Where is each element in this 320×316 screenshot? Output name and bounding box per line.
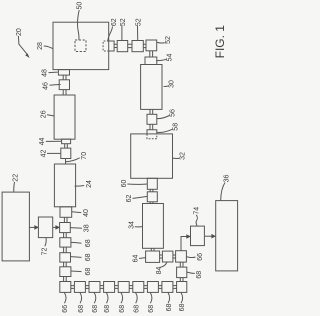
box 68 row7 <box>147 282 158 293</box>
leader 26 <box>47 115 54 116</box>
box 68 row3 <box>89 282 100 293</box>
svg-text:34: 34 <box>129 221 136 229</box>
box 66 row corner <box>60 282 71 293</box>
leader 54 <box>156 59 166 60</box>
svg-text:62: 62 <box>111 18 118 26</box>
text labels (rotated) <box>13 2 231 313</box>
box 72 <box>38 217 52 238</box>
wire row2-row3 <box>85 286 89 289</box>
svg-text:40: 40 <box>83 209 90 217</box>
component 62 on edge of 28 <box>109 41 114 51</box>
leader 48 <box>49 71 58 74</box>
svg-text:28: 28 <box>37 42 44 50</box>
leader 68 right <box>187 272 195 273</box>
wire 56-58 <box>150 124 153 129</box>
svg-text:68: 68 <box>85 253 92 261</box>
wire row5-row6 <box>129 286 133 289</box>
wire 62b-34 <box>150 202 153 204</box>
wire 40-38 <box>64 217 67 222</box>
wire 52a-52b <box>128 44 132 47</box>
box 68 row6 <box>133 282 144 293</box>
leader 52b <box>137 26 139 40</box>
tab 60 <box>147 178 157 189</box>
wire 60-62 <box>150 189 153 192</box>
tab 48 <box>58 70 69 76</box>
leader 36 <box>221 183 225 201</box>
wire 66 to 74 arrow <box>181 237 187 251</box>
box 68 right column <box>177 267 187 278</box>
leader 44 <box>46 140 62 142</box>
svg-text:68: 68 <box>85 239 92 247</box>
leader row label 9 <box>181 293 183 304</box>
box 34 <box>143 204 164 249</box>
leader 84 <box>160 262 167 267</box>
leader 42 <box>47 152 61 154</box>
svg-text:66: 66 <box>62 305 69 313</box>
svg-text:68: 68 <box>104 305 111 313</box>
svg-text:58: 58 <box>172 123 179 131</box>
svg-text:62: 62 <box>126 195 133 203</box>
wire 30-56 <box>150 110 153 115</box>
svg-text:50: 50 <box>77 2 84 10</box>
box 28 <box>53 22 109 69</box>
svg-text:68: 68 <box>148 305 155 313</box>
leader 50 <box>77 10 79 40</box>
box 42 <box>61 148 71 158</box>
box 64 <box>146 251 160 262</box>
wire 68b-68c <box>64 262 67 267</box>
svg-text:68: 68 <box>85 268 92 276</box>
wire 38-68a <box>64 233 67 238</box>
leader row label 2 <box>80 293 82 304</box>
box 68 row4 <box>104 282 115 293</box>
box 26 <box>54 95 75 139</box>
box 68 row2 <box>74 282 85 293</box>
box 68c <box>60 267 71 277</box>
svg-text:72: 72 <box>42 248 49 256</box>
svg-text:42: 42 <box>41 150 48 158</box>
box 68 row8 <box>162 282 173 293</box>
wire 62-52a <box>114 44 117 47</box>
svg-text:44: 44 <box>39 138 46 146</box>
svg-text:48: 48 <box>41 69 48 77</box>
leader 72 <box>45 238 46 247</box>
leader 70 <box>66 158 80 162</box>
leader row label 5 <box>121 293 123 304</box>
svg-text:52: 52 <box>135 18 142 26</box>
leader 28 <box>44 46 53 49</box>
svg-text:30: 30 <box>168 80 175 88</box>
wire 72-38 arrow <box>53 226 56 228</box>
tab 44 <box>62 139 71 144</box>
wire 44-42 <box>65 144 68 148</box>
leader 62 top <box>108 27 113 41</box>
wire 48-46 <box>63 75 66 80</box>
wire 64-84 <box>160 255 163 258</box>
wire row7-row8 <box>158 286 162 289</box>
leader 32 <box>173 157 180 159</box>
box 66 right <box>176 251 187 262</box>
tab 54 <box>145 57 157 65</box>
leader 52c <box>157 41 165 44</box>
wire 68-row <box>180 278 183 282</box>
box 22 <box>2 192 29 261</box>
svg-text:68: 68 <box>78 305 85 313</box>
box 38 <box>60 223 71 233</box>
wire 68c-row <box>64 277 67 282</box>
svg-text:68: 68 <box>119 305 126 313</box>
box 52c <box>146 40 157 51</box>
box 68 row5 <box>118 282 129 293</box>
leader row label 1 <box>64 293 66 304</box>
leader 52a <box>121 26 123 40</box>
wire row8-row9 <box>173 286 177 289</box>
svg-text:68: 68 <box>166 304 173 312</box>
svg-text:54: 54 <box>166 54 173 62</box>
svg-text:70: 70 <box>81 152 88 160</box>
wire row4-row5 <box>115 286 119 289</box>
svg-text:52: 52 <box>120 18 127 26</box>
box 32 <box>131 134 173 178</box>
leader 24 <box>75 185 85 188</box>
svg-text:FIG. 1: FIG. 1 <box>213 25 227 59</box>
wire row3-row4 <box>100 286 104 289</box>
leader row label 7 <box>150 293 152 304</box>
leader row label 6 <box>136 293 138 304</box>
svg-text:46: 46 <box>43 82 50 90</box>
svg-text:38: 38 <box>84 224 91 232</box>
leader row label 4 <box>106 293 108 304</box>
box 46 <box>59 80 69 90</box>
leader 60 <box>127 183 147 185</box>
leader 46 <box>50 84 61 87</box>
box 52a <box>117 41 128 52</box>
svg-text:68: 68 <box>196 271 203 279</box>
box 74 <box>191 226 205 246</box>
leader 66 right <box>187 256 196 259</box>
svg-text:36: 36 <box>224 175 231 183</box>
box 62b <box>147 192 157 202</box>
dashed box 50 <box>75 40 86 52</box>
box 68 row9 <box>177 282 187 293</box>
wire row6-row7 <box>144 286 148 289</box>
leader 58 <box>157 129 172 132</box>
box 24 <box>54 164 75 207</box>
leader 68c <box>71 270 81 273</box>
tab 40 <box>60 207 72 218</box>
wire 74-36 arrow <box>205 235 212 237</box>
wire 46-26 <box>63 90 66 95</box>
box 52b <box>132 41 143 52</box>
leader 74 <box>196 215 197 226</box>
wire 34-64 <box>151 248 154 251</box>
svg-text:68: 68 <box>179 304 186 312</box>
svg-text:56: 56 <box>169 109 176 117</box>
svg-text:26: 26 <box>40 110 47 118</box>
leader row label 3 <box>94 293 96 304</box>
leader 56 <box>157 116 169 119</box>
wire 42-24 node 70 <box>65 159 67 165</box>
leader row label 8 <box>168 293 170 304</box>
arrow 20 <box>18 36 26 54</box>
wire row1-row2 <box>71 286 75 289</box>
svg-text:32: 32 <box>179 152 186 160</box>
wire 66-68 right column <box>180 262 183 267</box>
leader 68b <box>71 256 82 259</box>
wire 52c-54 <box>150 51 153 57</box>
box 36 <box>216 201 238 271</box>
box 30 <box>141 65 162 110</box>
svg-text:60: 60 <box>121 180 128 188</box>
svg-text:66: 66 <box>197 253 204 261</box>
leader 68a <box>71 241 81 244</box>
svg-text:22: 22 <box>13 174 20 182</box>
leader 22 <box>13 182 16 192</box>
leader 38 <box>71 227 83 230</box>
leader 62b <box>133 196 148 198</box>
box 68a <box>60 238 71 247</box>
leader 64 <box>139 257 146 260</box>
wire 84-66 <box>173 255 176 258</box>
leader 30 <box>164 85 169 88</box>
box 58 half dashed <box>147 130 157 134</box>
wire 52b-52c <box>143 44 146 47</box>
leader 40 <box>72 211 81 214</box>
svg-text:68: 68 <box>133 305 140 313</box>
svg-text:20: 20 <box>16 28 23 36</box>
svg-text:74: 74 <box>194 207 201 215</box>
svg-text:24: 24 <box>86 180 93 188</box>
svg-text:52: 52 <box>165 36 172 44</box>
svg-text:68: 68 <box>92 305 99 313</box>
box 68b <box>60 253 71 262</box>
wire 22-72 arrow <box>29 226 34 228</box>
box 84 <box>162 251 173 262</box>
wire 68a-68b <box>64 247 67 253</box>
svg-text:64: 64 <box>133 255 140 263</box>
leader 34 <box>135 226 143 228</box>
box 56 <box>147 114 157 124</box>
svg-text:84: 84 <box>156 267 163 275</box>
